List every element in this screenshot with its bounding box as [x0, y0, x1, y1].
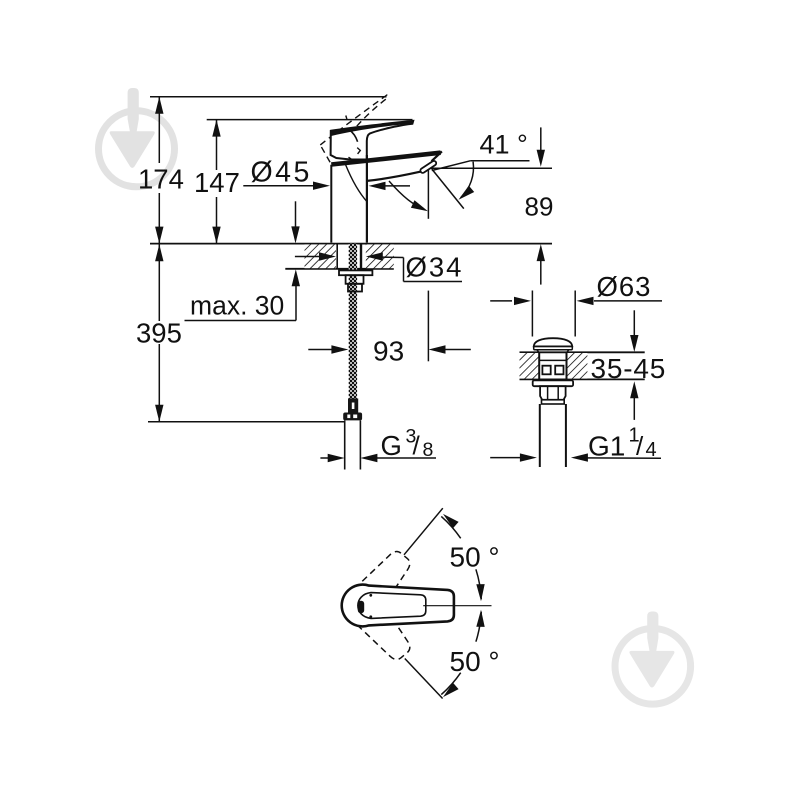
faucet shank tube walls: [337, 244, 361, 269]
faucet body left edge: [330, 165, 332, 243]
drain body through counter: [538, 352, 540, 379]
hose reducer step: [348, 284, 362, 292]
arrowheads 174/147/395: [155, 97, 221, 422]
svg-text:89: 89: [525, 192, 554, 222]
dimension 147 vertical: [216, 120, 218, 170]
handle logo slot: [358, 601, 364, 613]
grip front curve: [349, 130, 358, 142]
svg-text:Ø63: Ø63: [597, 271, 652, 302]
watermark logo top-left: [99, 88, 175, 187]
dimension G3/8: [320, 426, 436, 463]
spout underside: [367, 172, 421, 181]
drain counter hatch right: [568, 353, 588, 379]
bottom view: handle swivel: [338, 508, 499, 698]
dimension 174 vertical: [158, 97, 160, 163]
dimension max. 30: [185, 201, 301, 320]
svg-text:Ø45: Ø45: [251, 157, 312, 189]
extension line top 174: [150, 96, 387, 98]
spout top thick edge: [331, 153, 440, 165]
svg-text:G1: G1: [588, 431, 625, 462]
braided supply hose: [349, 244, 357, 399]
arc on body: [346, 165, 368, 203]
counter bottom line left: [285, 268, 394, 270]
svg-text:93: 93: [373, 336, 404, 367]
svg-text:50 °: 50 °: [450, 646, 500, 677]
ray up 50: [404, 508, 443, 555]
hose mounting nut: [346, 275, 364, 284]
drain locknut: [540, 386, 566, 400]
drain washer: [533, 380, 573, 386]
handle dots: [369, 594, 372, 597]
arc lower: [441, 673, 460, 695]
ray down 50: [405, 659, 443, 699]
dimension 41 deg: [432, 130, 530, 209]
dashed handle rotated up 50: [338, 545, 417, 630]
dimension 395 vertical: [158, 244, 160, 321]
centerline: [423, 605, 491, 607]
drain assembly: [490, 271, 666, 467]
extension line under spout tip: [427, 170, 429, 219]
counter hatch left of shank: [305, 244, 337, 268]
svg-text:35-45: 35-45: [591, 353, 667, 384]
svg-text:50 °: 50 °: [450, 542, 500, 573]
svg-text:G: G: [381, 430, 402, 461]
watermark logo bottom-right: [615, 612, 691, 705]
handle lever (solid): [331, 116, 414, 161]
svg-text:41 °: 41 °: [480, 130, 528, 160]
svg-text:174: 174: [138, 164, 184, 195]
hose end ferrule: [343, 399, 362, 421]
dashed rotated lever handle: [315, 95, 406, 170]
drain extension lines: [531, 291, 533, 337]
svg-text:/: /: [413, 431, 421, 461]
dashed outline remnants near grip: [357, 148, 360, 154]
drain counter top line: [520, 351, 645, 353]
drain band: [542, 400, 565, 404]
395 bottom reference line: [148, 421, 345, 423]
svg-text:147: 147: [194, 167, 240, 198]
dimension 93: [308, 321, 471, 367]
hose washer under counter: [339, 270, 372, 275]
drain counter hatch left: [520, 353, 540, 379]
G3/8 thread tube: [345, 420, 361, 469]
drain neck: [537, 350, 539, 353]
handle top thick edge: [331, 121, 414, 136]
faucet body front edge: [366, 155, 368, 243]
dashed handle rotated down 50: [338, 581, 417, 666]
svg-text:395: 395: [136, 318, 182, 349]
counter top line: [150, 243, 552, 245]
spout: [331, 151, 442, 181]
drain counter bottom line: [520, 378, 645, 380]
spout tip level line: [431, 167, 552, 169]
handle top view outer: [342, 585, 454, 627]
handle top view inner contour: [358, 593, 426, 619]
extension line 147: [207, 119, 413, 121]
drain overflow windows: [542, 366, 550, 375]
aerator: [420, 160, 438, 174]
drain tailpipe: [539, 404, 541, 467]
dimension D34: [295, 252, 464, 283]
dimension 89: [431, 127, 553, 284]
drain cap dome: [534, 338, 573, 346]
svg-text:/: /: [636, 431, 644, 461]
dimension D45: [243, 157, 410, 191]
arc upper: [441, 516, 460, 538]
arc under spout with arrow: [389, 181, 424, 209]
counter hatch right of shank: [366, 244, 394, 268]
svg-text:Ø34: Ø34: [406, 252, 464, 283]
svg-text:max. 30: max. 30: [190, 291, 284, 321]
